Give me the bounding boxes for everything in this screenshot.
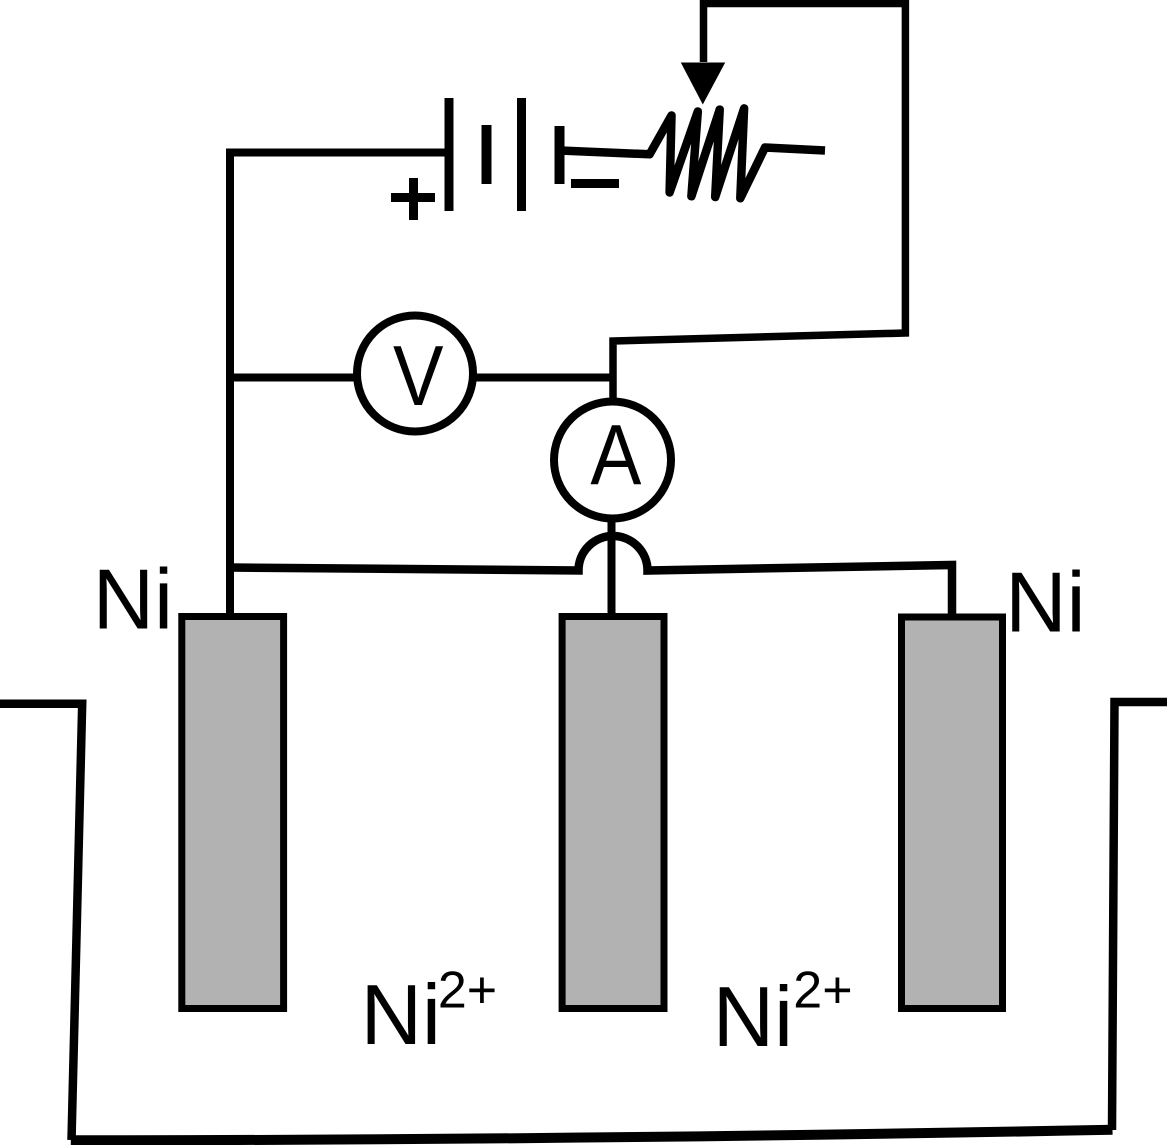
svg-text:2+: 2+ [438, 962, 497, 1020]
svg-text:2+: 2+ [793, 962, 852, 1020]
svg-text:Ni: Ni [1005, 556, 1085, 651]
svg-text:A: A [590, 408, 641, 503]
svg-text:Ni: Ni [93, 553, 173, 648]
svg-text:Ni: Ni [361, 968, 441, 1063]
svg-text:Ni: Ni [713, 970, 793, 1065]
svg-text:V: V [393, 329, 444, 424]
